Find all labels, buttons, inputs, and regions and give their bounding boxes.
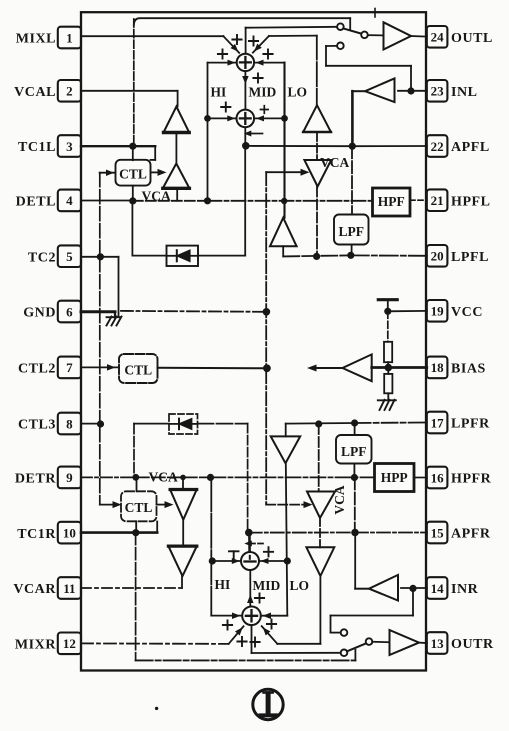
switch lever R (F to E) xyxy=(347,644,366,652)
junction dot at S3 right xyxy=(284,557,291,564)
svg-text:CTL: CTL xyxy=(119,166,147,181)
wire diagonal into S1 from right xyxy=(253,36,269,53)
wire diode2 line left segment xyxy=(134,423,169,425)
plus mark S4 lower-right xyxy=(250,637,259,646)
wire CTL2 output to center node xyxy=(158,367,267,370)
svg-text:VCC: VCC xyxy=(451,305,483,320)
long bus R vertical down to bypass xyxy=(135,533,137,661)
wire TC1R pin10 heavy with hook xyxy=(81,531,157,534)
junction dot DETR to VCA-R1 branch xyxy=(180,475,186,481)
svg-text:VCAR: VCAR xyxy=(13,582,56,597)
switch lever L (A to B) xyxy=(343,28,361,33)
junction dot DETR/CTL-R xyxy=(132,474,139,481)
wire right diagonal into S4 xyxy=(262,626,278,644)
pin 10 box (TC1R) xyxy=(58,522,81,544)
svg-text:22: 22 xyxy=(431,139,444,154)
wire LPF-R bus vertical xyxy=(354,423,356,435)
wire S2 left input xyxy=(208,117,237,119)
svg-text:13: 13 xyxy=(431,636,445,651)
svg-text:CTL: CTL xyxy=(125,500,153,515)
svg-text:MIXR: MIXR xyxy=(15,638,56,653)
wire LO branch vertical (S1-right down to LO amp) xyxy=(283,63,285,218)
pin 1 box (MIXL) xyxy=(58,27,81,49)
wire LPF bus through box xyxy=(351,146,353,214)
junction dot CTL1/DETL xyxy=(129,197,136,204)
wire VCC pin19 xyxy=(388,310,427,312)
svg-text:GND: GND xyxy=(23,306,56,321)
diode D1 symbol xyxy=(176,250,178,261)
mix buffer amp triangle (L) xyxy=(303,105,331,132)
side control bus vertical xyxy=(99,173,101,505)
junction dot S2 left xyxy=(204,115,211,122)
wire HPP out to pin16 HPFR xyxy=(414,477,427,479)
pin 13 box (OUTR) xyxy=(427,632,448,654)
wire INR pin14 to buffer xyxy=(401,587,427,589)
wire diode line left segment xyxy=(132,255,166,257)
junction dot VCA-R/LPFR xyxy=(315,420,322,427)
wire S3 left input xyxy=(212,560,241,562)
amp A2 triangle (L VCA stage) xyxy=(163,164,190,189)
LO amp L triangle xyxy=(270,218,297,247)
solid arrow into S1 left xyxy=(228,60,236,66)
svg-text:DETR: DETR xyxy=(15,472,56,487)
solid arrow into S3 right xyxy=(261,558,269,564)
svg-text:HI: HI xyxy=(215,577,231,592)
wire CTL1 output arrow into A2 xyxy=(151,171,158,173)
svg-text:LO: LO xyxy=(290,578,310,593)
pin 22 box (APFL) xyxy=(427,135,448,157)
LPF-R box xyxy=(336,435,372,464)
pin 7 box (CTL2) xyxy=(58,357,81,379)
svg-text:CTL2: CTL2 xyxy=(18,362,56,377)
wire APFL line to pin22 xyxy=(246,145,352,147)
wire LO-R amp output to S4 path xyxy=(277,643,320,645)
wire A2 output down to DETL line xyxy=(176,188,178,200)
pin 24 box (OUTL) xyxy=(427,26,448,48)
wire S1 left input with corner xyxy=(208,62,237,64)
pin 5 box (TC2) xyxy=(58,245,81,267)
stray ink dot xyxy=(155,707,158,710)
wire B to OUTL amp xyxy=(368,34,384,36)
BIAS buffer triangle xyxy=(343,354,372,381)
ground hatching below R2 xyxy=(380,400,385,410)
junction dot LO vertical at DETL line xyxy=(281,198,287,204)
svg-text:CTL: CTL xyxy=(124,363,152,378)
plus mark S1 lower-right xyxy=(253,73,262,82)
svg-text:21: 21 xyxy=(431,193,444,208)
wire MIXR diagonal into S4 xyxy=(229,626,244,644)
switch contact A (L) xyxy=(337,23,344,30)
VCA control rail vertical xyxy=(265,172,267,503)
pin 11 box (VCAR) xyxy=(58,577,81,599)
wire BIAS node down to R2 xyxy=(387,368,389,374)
svg-text:CTL3: CTL3 xyxy=(18,418,56,433)
plus mark S4 far-left xyxy=(223,620,232,629)
wire CTL1 left input from side bus xyxy=(100,172,115,174)
wire HI branch vertical (S1-left down to DETL line) xyxy=(207,63,209,201)
junction dot CTL2 output node xyxy=(263,364,271,372)
registration tick on top edge xyxy=(374,9,376,18)
wire S4 right input xyxy=(261,615,287,617)
wire OUTL amp to pin24 xyxy=(411,35,427,38)
GND dash rail to control rail xyxy=(121,310,266,313)
control bus vertical into CTL1 xyxy=(132,146,134,160)
wire GND pin6 heavy xyxy=(81,310,115,313)
wire LPFR line xyxy=(286,422,355,425)
pin 19 box (VCC) xyxy=(427,300,448,322)
pin 12 box (MIXR) xyxy=(58,633,81,655)
diode D2 symbol xyxy=(178,419,180,430)
wire diode line right segment up to APFL node xyxy=(198,255,245,257)
arrowhead MIXR diagonal xyxy=(235,625,245,635)
wire INL node up and left to bypass contact line xyxy=(410,66,412,91)
wire CTL-R left input arrow xyxy=(100,504,114,506)
svg-text:HPFL: HPFL xyxy=(451,194,491,209)
wire S1 to S2 vertical xyxy=(244,71,246,109)
switch contact D (bypass R) xyxy=(341,629,348,636)
diode D1 box xyxy=(167,246,199,266)
arrowhead right diagonal xyxy=(260,625,270,635)
wire diode2 line right segment xyxy=(198,423,248,425)
svg-text:12: 12 xyxy=(63,636,76,651)
wire E to OUTR amp xyxy=(372,641,389,643)
solid arrow into S4 left xyxy=(232,612,241,619)
wire LO amp base to LPFL line xyxy=(282,246,284,256)
wire VCA-L output to LPFL line xyxy=(316,187,318,257)
feedback arrow into S3 top (minus) xyxy=(249,543,263,545)
svg-text:LPF: LPF xyxy=(338,224,364,239)
wire R1 to BIAS node xyxy=(387,362,389,367)
wire CTL2 pin7 input xyxy=(81,366,119,368)
svg-text:LPFL: LPFL xyxy=(451,250,489,265)
CTL-R box dashed xyxy=(121,491,157,521)
wire A1 to A2 xyxy=(175,133,177,164)
wire VCC node down to R1 xyxy=(387,311,389,342)
wire CTL-R bottom stub xyxy=(135,521,137,532)
svg-text:1: 1 xyxy=(66,30,73,45)
down triangle R (band amp) xyxy=(271,436,301,463)
wire diode2 down to APFR node xyxy=(247,424,249,533)
OUTR amp triangle xyxy=(390,630,420,655)
svg-text:APFR: APFR xyxy=(451,527,491,542)
wire BIAS buffer output with arrow xyxy=(315,367,343,369)
arrow into CTL2 xyxy=(107,364,116,371)
wire DETL pin4 line across to HPF xyxy=(81,200,133,202)
wire CTL1 bottom to DETL junction xyxy=(132,186,134,201)
junction dot VCC node xyxy=(384,308,391,315)
pin 21 box (HPFL) xyxy=(427,189,448,211)
svg-text:LO: LO xyxy=(288,85,308,100)
HPF box (L) xyxy=(373,188,411,216)
wire CTL3 pin8 xyxy=(81,423,101,425)
plus mark S3 upper-right xyxy=(264,547,273,556)
junction dot LPF-R/HPFR line xyxy=(351,474,358,481)
solid arrow into S4 right xyxy=(263,612,272,619)
wire S4 left input xyxy=(211,615,242,617)
wire LPF out to LPFL node xyxy=(351,245,353,256)
wire LPFR into down-triangle top xyxy=(285,424,287,437)
svg-text:INR: INR xyxy=(451,582,479,597)
summing node S3 (band sum R) xyxy=(241,552,259,570)
LO amp R triangle xyxy=(306,547,334,576)
wire control rail to VCA-L arrow xyxy=(266,171,301,173)
pin 14 box (INR) xyxy=(427,577,448,599)
publisher logo circled-I xyxy=(253,689,283,719)
plus mark S4 far-right xyxy=(267,619,276,628)
bypass line L top (corner to switch stub) xyxy=(134,18,350,25)
switch pole E xyxy=(366,638,373,645)
svg-text:MID: MID xyxy=(253,578,281,593)
svg-text:INL: INL xyxy=(451,85,478,100)
svg-text:16: 16 xyxy=(431,470,445,485)
wire mixer-right horizontal xyxy=(269,35,317,37)
pin 3 box (TC1L) xyxy=(58,135,81,157)
plus mark S1 upper-left xyxy=(232,35,241,44)
svg-text:7: 7 xyxy=(66,360,73,375)
junction dot HI-vertical at DETL line xyxy=(204,197,211,204)
wire S3 right input xyxy=(259,560,287,562)
junction dot LPF-R/APFR line xyxy=(351,529,359,537)
plus mark beside S4-S3 arrow xyxy=(255,593,264,602)
svg-text:4: 4 xyxy=(66,193,73,208)
svg-text:TC1R: TC1R xyxy=(17,527,56,542)
arrow into CTL1 left xyxy=(106,169,114,176)
wire LO-R vertical (tri apex to mixer R line) xyxy=(286,463,288,615)
junction dot APFL node xyxy=(242,142,250,150)
wire MIXR pin12 line xyxy=(81,642,229,645)
wire diode2 line left vertical xyxy=(133,424,135,478)
svg-text:VCA: VCA xyxy=(149,470,178,485)
VCA-R triangle xyxy=(307,492,335,519)
junction dot TC2/side bus xyxy=(97,253,104,260)
svg-text:HPF: HPF xyxy=(378,194,405,209)
junction dot side bus / pin8 wire xyxy=(97,420,104,427)
wire S4 to S3 vertical xyxy=(249,570,251,607)
wire CTL1/DETL down to diode line xyxy=(131,201,133,256)
wire VCA-R2 output down to VCAR line xyxy=(181,576,183,588)
junction dot BIAS node xyxy=(385,364,393,372)
wire INR node down to bypass contact D line xyxy=(412,588,414,615)
svg-text:VCA: VCA xyxy=(320,155,349,170)
solid arrow into S3 left xyxy=(232,558,240,564)
HPP box (R) xyxy=(375,464,415,492)
INL buffer triangle xyxy=(365,78,394,102)
svg-text:OUTL: OUTL xyxy=(451,31,493,46)
svg-text:17: 17 xyxy=(431,415,445,430)
bypass line R bottom xyxy=(136,659,356,661)
resistor R1 body xyxy=(384,342,392,362)
wire S4 output down and right to contact F xyxy=(251,625,253,653)
solid arrow S4-to-S3 pointing up xyxy=(247,595,254,604)
junction dot control rail / GND rail xyxy=(263,308,271,316)
junction dot APFL/LPF branch xyxy=(349,143,356,150)
wire S2 right input xyxy=(254,117,284,119)
junction dot DETR branch xyxy=(207,474,214,481)
pin 20 box (LPFL) xyxy=(427,245,448,267)
wire TC2 pin5 xyxy=(81,256,119,258)
junction square LO vertical at S2 line xyxy=(281,115,288,122)
pin 17 box (LPFR) xyxy=(427,412,448,434)
wire mix buffer to VCA-L xyxy=(316,132,318,160)
VCC rail symbol xyxy=(387,300,389,311)
solid arrow into S1 right xyxy=(256,60,264,66)
CTL1 box xyxy=(116,160,151,186)
plus mark S1 far-left xyxy=(218,49,227,58)
wire mixer node vertical upper xyxy=(316,36,318,105)
wire S1 right input xyxy=(254,62,284,64)
amp A1 triangle (L gain stage) xyxy=(164,107,190,133)
svg-text:TC2: TC2 xyxy=(28,250,56,265)
IC package body outline xyxy=(81,12,426,670)
svg-text:10: 10 xyxy=(63,525,76,540)
wire VCAL pin2 to amp A1 xyxy=(81,90,178,92)
wire DETR down into VCA-R1 top xyxy=(182,477,184,489)
svg-text:23: 23 xyxy=(431,84,445,99)
wire OUTR amp to pin13 xyxy=(419,642,427,644)
svg-text:VCA: VCA xyxy=(332,485,347,514)
svg-text:VCAL: VCAL xyxy=(14,85,56,100)
pin 23 box (INL) xyxy=(427,80,448,102)
svg-text:6: 6 xyxy=(66,304,73,319)
svg-text:DETL: DETL xyxy=(16,195,56,210)
solid arrow into S2 right xyxy=(256,115,264,121)
svg-text:LPF: LPF xyxy=(341,444,367,459)
wire S2 output down to APFL node xyxy=(244,127,246,146)
svg-text:15: 15 xyxy=(431,525,445,540)
junction dot LPFR/LPF-R xyxy=(351,419,358,426)
LPF box (L) xyxy=(334,215,369,245)
wire S1 output up and right to switch contact A xyxy=(245,28,247,54)
solid arrow S1-to-S2 pointing down xyxy=(242,76,249,84)
wire R2 to ground xyxy=(387,393,389,399)
svg-text:9: 9 xyxy=(66,470,73,485)
wire DETR pin9 line across to HPP xyxy=(81,476,136,478)
pin 9 box (DETR) xyxy=(58,467,81,489)
plus mark S2 upper-right xyxy=(261,106,269,114)
VCA-R1 triangle xyxy=(170,490,197,520)
svg-text:20: 20 xyxy=(431,249,444,264)
summing node S2 (band sum L) xyxy=(237,110,255,128)
CTL2 box xyxy=(119,354,158,383)
stray stub on left edge xyxy=(76,210,81,212)
junction dot TC1L / control bus xyxy=(129,143,136,150)
junction dot TC1R/long bus xyxy=(132,529,139,536)
junction dot INL node xyxy=(407,87,414,94)
wire buffer R output to LPF-R bus xyxy=(355,588,369,590)
wire VCA-R apex to LO amp R top xyxy=(319,518,321,547)
junction dot VCA-L/LPFL xyxy=(313,253,320,260)
junction dot LPFL node xyxy=(347,252,354,259)
arrowhead on MIXL diagonal xyxy=(231,44,241,54)
svg-text:11: 11 xyxy=(63,581,75,596)
wire HPF out to pin21 HPFL xyxy=(410,199,427,201)
diode D2 box dashed xyxy=(169,414,198,434)
svg-text:18: 18 xyxy=(431,360,445,375)
wire buffer output to LPF bus xyxy=(352,90,365,92)
plus mark S4 lower-left xyxy=(237,637,246,646)
wire INL pin23 to buffer xyxy=(398,90,427,92)
wire MIXL pin1 to mixer diagonal xyxy=(81,35,223,37)
svg-text:OUTR: OUTR xyxy=(451,637,494,652)
wire CTL-R top stub xyxy=(136,477,138,491)
svg-text:3: 3 xyxy=(66,139,73,154)
OUTL amp triangle xyxy=(384,22,412,49)
pin 18 box (BIAS) xyxy=(427,357,448,379)
solid arrow into S2 left xyxy=(227,115,235,121)
junction dot INR node xyxy=(409,585,416,592)
summing node S1 (MIX-L) xyxy=(237,54,254,71)
svg-text:5: 5 xyxy=(66,249,73,264)
pin 15 box (APFR) xyxy=(427,522,448,544)
pin 6 box (GND) xyxy=(58,301,81,323)
plus mark S1 upper-right xyxy=(249,36,258,45)
chassis ground hatching at GND pin xyxy=(107,317,112,326)
wire control rail to VCA-R arrow xyxy=(265,503,267,505)
wire TC1L pin3 to CTL1 hook xyxy=(81,145,155,147)
svg-text:MIXL: MIXL xyxy=(16,32,56,47)
svg-text:24: 24 xyxy=(431,30,445,45)
wire BIAS pin18 heavy xyxy=(372,366,427,369)
svg-text:HI: HI xyxy=(211,85,227,100)
wire VCAR pin11 line xyxy=(81,587,182,589)
wire VCA-R top to LPFR line xyxy=(318,424,320,492)
svg-text:19: 19 xyxy=(431,304,445,319)
arrowhead on right diagonal xyxy=(252,44,262,54)
svg-text:HPFR: HPFR xyxy=(451,472,492,487)
wire VCA-R1 to VCA-R2 xyxy=(182,520,184,547)
wire DETR-HI vertical down to mixer R xyxy=(210,477,212,615)
resistor R2 body xyxy=(384,374,392,393)
pin 8 box (CTL3) xyxy=(58,413,81,435)
svg-text:8: 8 xyxy=(66,416,73,431)
switch pole B xyxy=(361,32,368,39)
pin 16 box (HPFR) xyxy=(427,467,448,489)
wire CTL-R output arrow into VCA-R1 xyxy=(157,504,166,506)
junction dot APFR node xyxy=(245,529,253,537)
svg-text:14: 14 xyxy=(431,581,445,596)
plus mark S1 far-right xyxy=(263,49,272,58)
summing node S4 (MIX-R) xyxy=(242,607,261,626)
wire LPFL line to pin20 xyxy=(283,255,351,256)
svg-text:HPP: HPP xyxy=(381,470,408,485)
wire APFR line to pin15 xyxy=(249,532,355,534)
INR buffer triangle xyxy=(369,575,398,601)
svg-text:APFL: APFL xyxy=(451,140,490,155)
pin 4 box (DETL) xyxy=(58,190,81,212)
svg-text:2: 2 xyxy=(66,84,73,99)
control bus vertical upper (corner to TC1L) xyxy=(133,19,135,146)
svg-text:BIAS: BIAS xyxy=(451,362,486,377)
VCA-R2 triangle xyxy=(168,546,196,576)
wire APFR node to S3 top heavy xyxy=(248,533,251,552)
wire TC2 branch down to ground xyxy=(118,257,120,317)
junction dot at S3 left xyxy=(209,557,216,564)
plus mark S2 upper-left xyxy=(221,102,230,111)
svg-text:MID: MID xyxy=(249,85,277,100)
switch contact F xyxy=(341,650,348,657)
pin 2 box (VCAL) xyxy=(58,80,81,102)
switch contact C (bypass) xyxy=(337,43,344,50)
wire MIXL diagonal into summing node S1 xyxy=(223,36,239,53)
feedback arrow into S2 output (minus) xyxy=(249,133,263,135)
svg-text:LPFR: LPFR xyxy=(451,417,490,432)
T mark S3 upper-left xyxy=(229,550,239,552)
VCA-L triangle xyxy=(304,160,331,187)
svg-text:TC1L: TC1L xyxy=(18,140,56,155)
